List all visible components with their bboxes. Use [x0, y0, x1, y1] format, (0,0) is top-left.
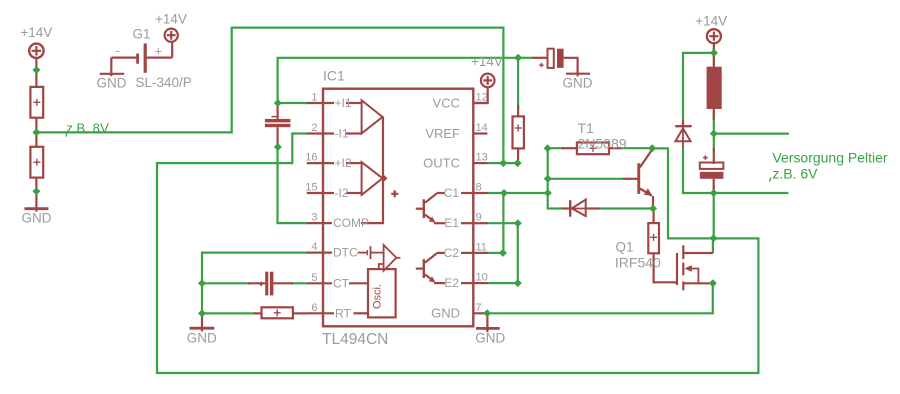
svg-text:14: 14 — [476, 122, 488, 134]
node T1 C-net — [544, 189, 552, 197]
battery G1 plates — [144, 43, 147, 72]
node drain junction — [710, 234, 718, 242]
svg-text:RT: RT — [335, 306, 351, 320]
capacitor C2 (supply bypass) polarized — [532, 49, 578, 77]
svg-text:Versorgung Peltier: Versorgung Peltier — [772, 149, 888, 165]
svg-text:3: 3 — [311, 212, 317, 224]
label tick before z.B. 6V — [770, 178, 771, 182]
wire riser x277.6 — [278, 58, 532, 103]
IC1 RT internal lead — [354, 312, 369, 314]
junction dots (green diamonds) — [32, 49, 718, 318]
wire net +I1: pin1 to cap and riser to feedback RC — [278, 102, 308, 104]
IC1 DTC buffer triangle — [379, 245, 401, 271]
node cap bottom COMP — [274, 143, 282, 151]
node OUTC netA — [499, 159, 507, 167]
wire pin11 stub — [488, 252, 503, 254]
svg-text:2N5089: 2N5089 — [578, 135, 627, 151]
node DTC CT — [198, 279, 206, 287]
svg-text:C1: C1 — [444, 186, 460, 200]
op-amp IC1 TL494CN box — [323, 89, 473, 327]
transistor T1 2N5089 — [623, 150, 653, 209]
node above divider ground — [32, 187, 40, 195]
wire net GND: pin7 to mosfet source — [487, 283, 713, 313]
IC1 internal npn2 emitter arrow — [429, 276, 436, 282]
IC1 comparator output to COMP — [361, 117, 383, 223]
svg-text:16: 16 — [305, 152, 317, 164]
resistor R6 (RT) — [254, 307, 308, 318]
wire divider tap green — [36, 131, 40, 133]
resistor R5 (gate) — [648, 209, 676, 283]
svg-text:6: 6 — [311, 302, 317, 314]
ground top cap — [566, 73, 590, 75]
svg-text:1: 1 — [311, 92, 317, 104]
svg-text:+14V: +14V — [695, 14, 727, 29]
node +14V inductor diode — [710, 49, 718, 57]
svg-text:8: 8 — [476, 182, 482, 194]
ground IC pin7 — [476, 313, 500, 332]
wire Peltier+ stub to label — [714, 133, 789, 135]
wire diode D2 anode to emitter junction — [585, 207, 653, 209]
svg-text:COMP: COMP — [333, 216, 369, 230]
supply +14V battery — [165, 29, 178, 42]
wire diode D1 bottom branch — [683, 146, 714, 193]
transistor T1 emitter arrow — [644, 188, 653, 196]
svg-text:GND: GND — [431, 306, 460, 321]
capacitor C4 (Peltier) polarized — [700, 148, 724, 189]
svg-text:-I2: -I2 — [335, 186, 349, 200]
node T1 collector — [648, 144, 656, 152]
diode D1 (freewheel) — [675, 120, 692, 147]
supply +14V left — [29, 44, 43, 87]
svg-text:z.B. 8V: z.B. 8V — [66, 120, 109, 135]
diode D2 (gate discharge) — [562, 200, 600, 217]
svg-text:DTC: DTC — [333, 246, 358, 260]
node T1 base — [544, 175, 552, 183]
node pin10 end — [514, 279, 522, 287]
IC1 CT internal lead — [349, 282, 368, 284]
svg-text:E1: E1 — [444, 216, 459, 230]
IC1 internal npn1 emitter arrow — [429, 217, 436, 223]
IC1 comparator 2 — [346, 162, 383, 195]
svg-text:GND: GND — [97, 75, 127, 90]
svg-text:+14V: +14V — [20, 25, 52, 40]
wire net z.B.8V: divider tap to OUTC pin 13 — [36, 28, 503, 164]
svg-text:OUTC: OUTC — [423, 156, 460, 171]
node pin1 cap top — [274, 99, 282, 107]
wire COMP net — [278, 147, 309, 223]
wire pin13 OUTC stub row — [487, 162, 517, 164]
wire net DTC — [202, 253, 308, 314]
svg-text:4: 4 — [311, 241, 317, 253]
supply +14V right — [707, 29, 721, 53]
svg-text:5: 5 — [311, 272, 317, 284]
node Peltier plus — [710, 130, 718, 138]
wire pin9 E1 — [488, 223, 518, 283]
svg-text:11: 11 — [476, 241, 487, 253]
svg-text:GND: GND — [187, 330, 217, 345]
wire base resistor left stub — [548, 147, 564, 149]
ground CT/RT — [190, 313, 215, 331]
node divider tap z.B. 8V — [32, 128, 40, 136]
IC1 DTC cap mark — [358, 246, 384, 259]
wire +14V to inductor and diode branch — [713, 48, 715, 67]
svg-text:Osci.: Osci. — [372, 284, 384, 309]
node source junction — [709, 279, 717, 287]
node pin11 end — [499, 249, 507, 257]
svg-text:CT: CT — [333, 276, 350, 290]
resistor R1 (divider top) — [30, 87, 43, 147]
svg-text:z.B. 6V: z.B. 6V — [772, 165, 818, 181]
ground divider — [24, 178, 48, 212]
svg-text:+14V: +14V — [155, 12, 187, 27]
mosfet Q1 IRF540 — [676, 245, 713, 290]
resistor R3 (OUTC feedback) — [513, 105, 524, 163]
IC1 right pin stubs — [473, 103, 488, 313]
svg-text:+I2: +I2 — [335, 156, 352, 170]
svg-text:+I1: +I1 — [335, 96, 352, 110]
node Peltier minus — [710, 189, 718, 197]
capacitor C3 (CT) — [248, 272, 293, 296]
wire T1 base — [548, 178, 623, 180]
IC1 oscillator box — [368, 269, 396, 317]
wire T1 left vertical — [548, 148, 562, 208]
wire base resistor right to collector junction — [621, 147, 652, 149]
wire CT right green bit — [291, 282, 308, 284]
battery G1 — [111, 42, 172, 76]
node OUTC resistor — [514, 159, 522, 167]
wire net C1/C2 to T1 — [488, 192, 548, 194]
svg-text:13: 13 — [476, 152, 488, 164]
svg-text:C2: C2 — [444, 246, 460, 260]
IC1 left pin stubs — [307, 103, 334, 313]
IC1 internal plus — [391, 190, 398, 197]
wire diode D1 top branch — [683, 53, 714, 121]
svg-text:G1: G1 — [133, 27, 151, 42]
wire Peltier- stub to label — [714, 192, 789, 194]
svg-text:7: 7 — [476, 302, 482, 314]
svg-text:+: + — [155, 44, 163, 59]
svg-text:+14V: +14V — [471, 54, 503, 69]
svg-text:GND: GND — [22, 210, 52, 225]
svg-text:15: 15 — [305, 182, 317, 194]
wire net Peltier- vertical to drain junction — [713, 186, 715, 238]
wire net Peltier+ — [713, 111, 715, 151]
svg-text:10: 10 — [476, 272, 488, 284]
supply +14V pin12 — [473, 74, 494, 103]
wire net -I1 feedback loop — [157, 134, 758, 374]
IC1 internal junction dot — [381, 175, 387, 181]
node net B top resistor — [514, 54, 522, 62]
svg-text:-I1: -I1 — [335, 127, 349, 141]
IC1 internal npn 2 — [416, 253, 474, 283]
resistor R4 (T1 base) — [562, 143, 622, 155]
wire CT left — [202, 282, 250, 284]
IC1 internal npn 1 — [416, 193, 474, 223]
svg-text:IRF540: IRF540 — [615, 255, 661, 271]
svg-text:T1: T1 — [578, 120, 595, 136]
svg-text:GND: GND — [475, 330, 505, 345]
wire vertical pin8-pin11 — [502, 193, 504, 253]
inductor L (choke) — [707, 48, 722, 120]
wire RT left — [202, 312, 256, 314]
node CT RT ground — [198, 309, 206, 317]
svg-text:GND: GND — [563, 75, 593, 90]
node T1 resistor left — [544, 144, 552, 152]
svg-text:VCC: VCC — [433, 95, 460, 110]
resistor R2 (divider bottom) — [30, 147, 43, 178]
svg-text:E2: E2 — [444, 276, 459, 290]
battery ground — [100, 73, 124, 75]
svg-text:SL-340/P: SL-340/P — [136, 75, 192, 90]
svg-text:Q1: Q1 — [616, 240, 634, 255]
svg-text:IC1: IC1 — [323, 67, 345, 83]
capacitor C1 pin1-COMP — [265, 103, 291, 147]
node pin8 vertical — [500, 189, 508, 197]
wire resistor R3 top stub — [517, 58, 519, 110]
wire drain stub — [712, 238, 714, 253]
svg-text:9: 9 — [476, 212, 482, 224]
svg-text:2: 2 — [311, 122, 317, 134]
svg-text:-: - — [116, 43, 120, 58]
node T1 emitter diode — [649, 205, 657, 213]
node pin7 ground — [483, 309, 491, 317]
IC1 comparator 1 — [346, 100, 383, 133]
node pin9 — [514, 219, 522, 227]
node below left +14V — [32, 66, 40, 74]
svg-text:12: 12 — [476, 92, 488, 104]
svg-text:TL494CN: TL494CN — [322, 331, 388, 348]
mosfet Q1 substrate arrow — [685, 265, 692, 272]
svg-text:VREF: VREF — [425, 126, 460, 141]
